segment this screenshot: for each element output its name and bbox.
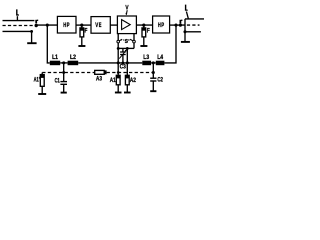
label L1 <box>52 54 58 61</box>
svg-text:P: P <box>67 22 70 29</box>
connector serif nub (left) <box>37 19 38 21</box>
arrowhead of V <box>126 13 128 16</box>
capacitor C1 bottom plate <box>60 83 67 85</box>
amplifier unit box VE <box>91 17 110 34</box>
inductor L4 <box>156 61 165 65</box>
capacitor C2 top plate <box>150 77 156 79</box>
amplifier triangle symbol <box>122 20 131 30</box>
ground (A1') <box>38 93 46 95</box>
junction dot on shield bottom line <box>30 30 33 33</box>
right coax shield bottom line <box>185 31 201 33</box>
label L2 <box>70 54 76 61</box>
arrow from V to amplifier <box>125 10 128 14</box>
junction dot (amp output) <box>142 24 145 27</box>
junction dot on right shield <box>183 30 186 33</box>
bypass dashed line (arrester path) <box>42 72 94 74</box>
wire HP1 to VE <box>76 24 91 26</box>
arrester A3 cap <box>104 70 106 74</box>
junction dot L1-L2 <box>62 61 65 64</box>
arrester A1 cap <box>116 75 120 78</box>
trimmer C3 arrowhead <box>125 49 127 51</box>
junction dot A1 on bypass line <box>117 71 120 74</box>
arrester A2 cap <box>125 75 129 78</box>
wire VE to amp <box>110 24 117 26</box>
svg-text:C1: C1 <box>55 78 61 85</box>
wire HP2 to output connector <box>170 24 182 26</box>
wire A1 to ground <box>117 85 119 92</box>
wire output node down to filter row <box>164 25 176 63</box>
wire left contact down <box>117 43 119 63</box>
fuse F1 body <box>80 28 84 37</box>
svg-text:s: s <box>125 38 128 45</box>
left coax cable shield top line <box>3 20 35 22</box>
left coax cable shield bottom line <box>3 30 32 32</box>
wire bypass to arrester A1' <box>41 73 43 75</box>
junction dot main line at right column <box>126 61 129 64</box>
switch blade left <box>119 39 122 41</box>
amplifier box U1 <box>117 16 136 34</box>
svg-text:F: F <box>147 27 150 34</box>
junction dot bridge middle <box>126 47 129 50</box>
svg-text:A1: A1 <box>110 77 116 84</box>
connector plug pin (right) <box>179 20 181 24</box>
wire L3 to L4 <box>151 62 156 64</box>
wire connector to HP1 <box>36 24 57 26</box>
label VE <box>95 22 102 29</box>
wire F2 to ground <box>143 37 145 46</box>
trimmer C3 bottom plate <box>120 54 126 56</box>
wire junction down to C2 <box>152 63 154 78</box>
amplifier right pin <box>133 34 135 41</box>
inductor L1 <box>50 61 60 65</box>
ground (A2) <box>124 92 131 94</box>
svg-text:L4: L4 <box>157 54 163 61</box>
svg-text:A3: A3 <box>96 75 103 82</box>
node dot (input branch) <box>46 24 49 27</box>
ground (left cable shield) <box>27 42 36 44</box>
trimmer C3 stub bottom <box>122 55 124 63</box>
capacitor C1 top plate <box>60 81 67 83</box>
arrester A3 body <box>95 70 105 74</box>
label HP (HP1) <box>63 22 70 29</box>
label L3 <box>143 54 149 61</box>
wire A1 column down <box>117 63 119 76</box>
junction dot bypass end at C2 <box>152 71 155 74</box>
svg-text:E: E <box>99 22 102 29</box>
label A2 <box>130 77 137 84</box>
ground (C2) <box>150 90 156 92</box>
junction dot L3-L4 <box>152 61 155 64</box>
junction dot main line at left column <box>117 61 120 64</box>
label C1 <box>55 78 61 85</box>
wire C2 to ground <box>152 81 154 91</box>
bypass dashed line right part <box>107 72 154 74</box>
amplifier left pin <box>117 34 119 41</box>
label HP (HP2) <box>158 22 165 29</box>
trimmer C3 arrow <box>119 51 126 59</box>
svg-text:F: F <box>85 27 88 34</box>
bridge wire below switch <box>118 47 134 49</box>
label L4 <box>157 54 163 61</box>
label L (left cable) <box>16 9 19 15</box>
wire down to fuse F2 <box>143 25 145 28</box>
label L (right cable) <box>185 5 188 11</box>
wire amp to HP2 <box>136 24 152 26</box>
fuse F1 filled cap <box>80 28 84 31</box>
capacitor C2 bottom plate <box>150 80 156 82</box>
trimmer C3 top plate <box>120 51 126 53</box>
right coax shield top line <box>185 18 204 20</box>
arrester A1' body <box>40 75 44 87</box>
arrester A2 body <box>125 75 129 85</box>
svg-text:C3: C3 <box>120 64 127 71</box>
connector plug pin (left) <box>35 20 37 24</box>
wire A1' to ground <box>41 86 43 93</box>
label F (F2) <box>147 27 150 34</box>
junction dot main line at C3 <box>121 61 124 64</box>
high-pass box HP2 <box>153 16 170 33</box>
wire A2 to ground <box>126 85 128 92</box>
connector contact dot (left) <box>35 24 38 27</box>
leader from L to cable <box>186 12 188 19</box>
label A3 <box>96 75 103 82</box>
inductor L3 <box>142 61 151 65</box>
switch link dashes right <box>128 39 132 41</box>
ground (F2) <box>140 45 147 47</box>
filter row main line left <box>60 62 67 64</box>
label A1' <box>34 76 40 83</box>
left coax cable centre conductor (dashed) <box>3 25 34 27</box>
svg-text:A2: A2 <box>130 77 137 84</box>
wire C1 to ground <box>63 84 65 92</box>
wire right contact down <box>133 43 135 49</box>
fuse F2 filled cap <box>142 28 146 31</box>
wire bridge middle down to main line <box>126 48 128 63</box>
wire junction down to C1 <box>63 63 65 81</box>
wire F1 to ground <box>81 37 83 46</box>
wire down to fuse F1 <box>81 25 83 28</box>
filter row main line centre <box>78 62 142 64</box>
svg-text:L3: L3 <box>143 54 149 61</box>
label A1 <box>110 77 116 84</box>
wire shield to ground <box>31 31 33 43</box>
svg-text:C2: C2 <box>157 77 163 84</box>
connector contact dot (right) <box>179 24 182 27</box>
label C3 <box>120 64 127 71</box>
arrester A1 body <box>116 75 120 85</box>
wire A2 column down <box>126 63 128 76</box>
high-pass box HP1 <box>57 16 76 33</box>
label C2 <box>157 77 163 84</box>
switch blade right <box>130 39 133 41</box>
label s <box>125 38 128 45</box>
switch contact circle left <box>117 40 120 43</box>
leader tick from L to cable <box>16 16 18 20</box>
junction dot on bypass line (C1) <box>62 71 65 74</box>
right coax centre conductor (dashed) <box>182 24 200 26</box>
svg-text:L1: L1 <box>52 54 58 61</box>
inductor L2 <box>68 61 79 65</box>
label F (F1) <box>85 27 88 34</box>
junction dot (HP1 output) <box>80 24 83 27</box>
junction dot (output branch) <box>174 24 177 27</box>
switch link dashes left <box>120 39 124 41</box>
ground (C1) <box>61 92 67 94</box>
junction dot bridge left <box>117 47 120 50</box>
svg-text:L2: L2 <box>70 54 76 61</box>
fuse F2 body <box>142 28 146 37</box>
svg-text:P: P <box>161 22 164 29</box>
ground (A1) <box>115 92 122 94</box>
right coax shield vertical <box>184 19 186 42</box>
ground (right cable shield) <box>181 41 190 43</box>
label V (gain) <box>125 5 129 12</box>
wire node down to filter row <box>47 25 50 63</box>
svg-text:A1': A1' <box>34 76 40 83</box>
switch contact circle right <box>133 40 136 43</box>
trimmer C3 stub top <box>122 48 124 51</box>
connector serif nub (right) <box>181 19 182 21</box>
ground (F1) <box>78 45 85 47</box>
arrester A1' cap <box>40 75 44 78</box>
